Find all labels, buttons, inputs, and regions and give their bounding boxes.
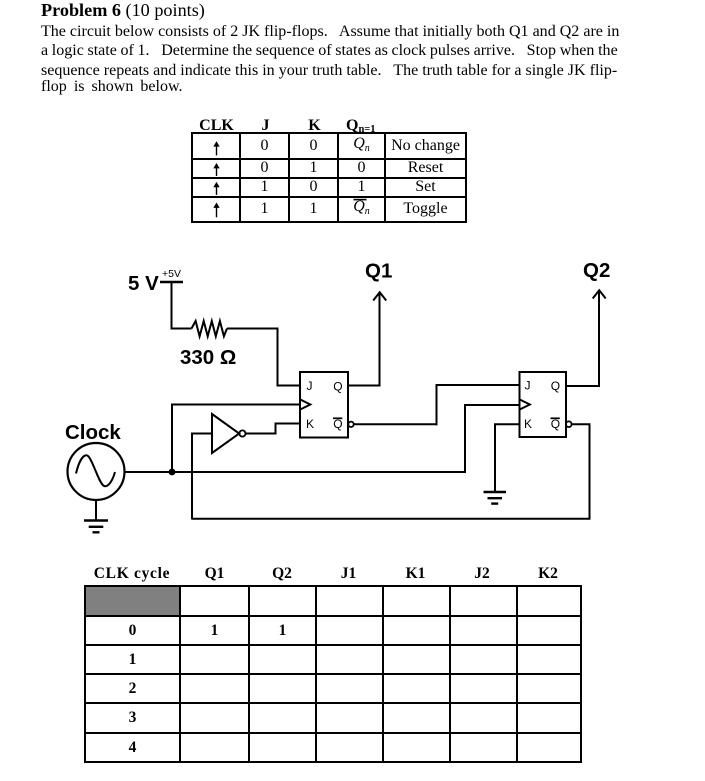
wire inverter output to U1 pin K [246,424,301,434]
svg-text:Q2: Q2 [583,259,610,282]
svg-text:Q: Q [551,379,560,393]
paragraph [41,23,619,41]
U1 Qbar output bubble [348,422,353,427]
wire resistor to corner [227,328,279,330]
heading [41,0,205,21]
wire inverter input [191,433,212,435]
svg-text:J: J [307,379,313,393]
wire U1 Q output to Q1 [348,293,380,386]
wire U2 Q output to Q2 [566,291,599,386]
CLK up-arrow row2 [213,163,219,176]
ground (clock) [84,521,108,533]
bottom answer table [84,585,582,763]
U1 pin label Qbar [333,417,343,431]
ground (U2 K) [484,492,507,504]
wire feedback up to inverter [191,433,193,520]
upper truth table [191,132,467,223]
CLK up-arrow row4 [213,203,219,218]
node Q1 arrowhead [373,292,386,300]
JK flip-flop U1 body [300,372,348,438]
svg-text:330 Ω: 330 Ω [180,346,236,369]
wire junction up to U1 clock input [172,405,300,474]
U2 pin label Qbar [551,417,561,431]
node Q2 arrowhead [593,290,606,298]
svg-text:5 V: 5 V [128,272,159,295]
inverter U3 [212,414,245,453]
wire junction to U2 clock input [172,405,520,472]
wire clock to ground [95,500,97,520]
svg-text:Clock: Clock [65,421,121,444]
bottom table headers [84,565,180,583]
CLK up-arrow row3 [213,182,219,195]
svg-text:K: K [524,417,532,431]
svg-text:J: J [525,379,531,393]
wire clock output [125,471,173,473]
wire U2 pin K to ground [495,424,520,491]
overline of Qbar_n (truth table row 4) [354,199,367,201]
upper truth table headers [192,119,241,132]
wire corner down [277,328,279,387]
CLK up-arrow row1 [213,141,219,155]
wire supply to resistor [171,328,192,330]
power supply +5V bar [160,281,183,283]
svg-text:K: K [306,417,314,431]
U2 Qbar output bubble [566,421,572,427]
svg-text:Q: Q [333,380,342,394]
wire U2 Qbar feedback to inverter [192,424,590,519]
svg-text:Q1: Q1 [365,260,392,283]
wire U1 Qbar output [354,423,438,425]
svg-text:+5V: +5V [162,268,181,280]
JK flip-flop U2 body [520,372,567,437]
clock source V1 [68,443,125,500]
wire into U1 pin J [278,385,301,387]
junction node [169,469,176,476]
U1 clock chevron [300,399,310,409]
U2 clock chevron [520,399,530,409]
resistor R1 330 ohm [192,321,228,336]
wire up to U2 pin J [437,385,520,425]
wire supply down [171,282,173,329]
